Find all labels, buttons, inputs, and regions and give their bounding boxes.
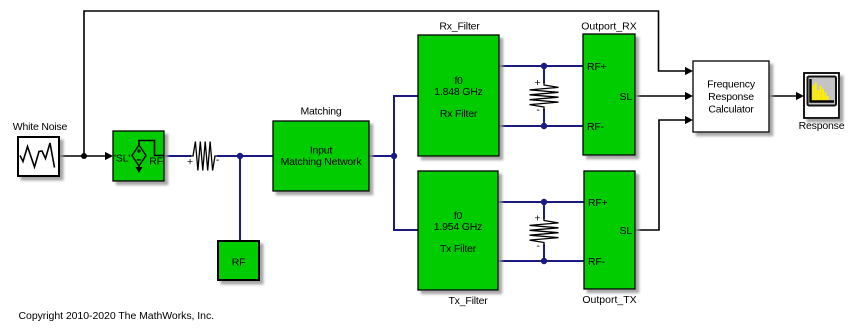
- svg-text:SL: SL: [620, 225, 633, 237]
- wire: calculator output to Response scope: [769, 95, 797, 97]
- junction: Tx RF+ node: [541, 199, 547, 205]
- svg-text:Tx Filter: Tx Filter: [440, 243, 477, 255]
- wire: Tx RF+ node to resistor R3: [543, 202, 545, 219]
- wire: Tx Filter RF+ to Outport_TX RF+: [498, 201, 584, 203]
- wire: node down to RF connection port: [239, 156, 241, 241]
- svg-text:RF+: RF+: [588, 197, 608, 209]
- wire: SL Inport RF to resistor R1: [164, 155, 191, 157]
- scope spectrum bars: [812, 83, 829, 102]
- junction: Rx RF- node: [541, 123, 547, 129]
- wire: Outport_RX SL to calculator input 2: [635, 95, 686, 97]
- block: SL Inport (controlled source) U1: [113, 131, 164, 181]
- svg-text:Matching: Matching: [300, 106, 341, 118]
- arrowhead into calculator input 1: [685, 67, 693, 75]
- svg-text:+: +: [535, 77, 541, 89]
- junction: White Noise output node: [81, 153, 87, 159]
- resistor R3: [530, 218, 559, 246]
- resistor R1: [190, 142, 218, 171]
- wire: White Noise output to SL Inport: [59, 155, 106, 157]
- wire: trunk node to Rx Filter input: [394, 96, 418, 156]
- junction: trunk node: [391, 153, 397, 159]
- resistor R2: [530, 82, 559, 110]
- wire: Outport_TX SL to calculator input 3: [635, 120, 686, 230]
- wire: resistor R3 to Tx RF- node: [543, 245, 545, 262]
- block: Rx_Filter: [418, 35, 499, 156]
- wire: resistor R2 to Rx RF- node: [543, 109, 545, 126]
- diamond minus sign: [137, 159, 142, 161]
- svg-text:1.848 GHz: 1.848 GHz: [434, 86, 482, 98]
- svg-text:Input: Input: [310, 145, 333, 157]
- junction: Tx RF- node: [541, 258, 547, 264]
- wire: Rx Filter RF- to Outport_RX RF-: [499, 125, 583, 127]
- wire: Rx RF+ node to resistor R2: [543, 66, 545, 83]
- scope screen bezel: [808, 77, 837, 106]
- block: Input Matching Network: [273, 121, 369, 191]
- svg-text:Copyright 2010-2020 The MathWo: Copyright 2010-2020 The MathWorks, Inc.: [19, 310, 215, 322]
- svg-text:Rx_Filter: Rx_Filter: [439, 21, 480, 33]
- svg-text:SL: SL: [620, 91, 633, 103]
- svg-text:Rx Filter: Rx Filter: [440, 108, 478, 120]
- svg-text:RF-: RF-: [588, 256, 606, 268]
- arrowhead into calculator input 2: [685, 92, 693, 100]
- arrowhead into Response scope: [796, 92, 804, 100]
- arrowhead into SL Inport: [105, 152, 113, 160]
- SL Inport internal wire: [139, 141, 164, 156]
- wire: Matching output to trunk node: [369, 155, 394, 157]
- wire: Rx Filter RF+ to Outport_RX RF+: [499, 65, 583, 67]
- svg-text:Response: Response: [799, 120, 845, 132]
- wire: feedback from White Noise node to Frequency Response Calculator input 1: [84, 11, 686, 156]
- svg-text:Matching Network: Matching Network: [281, 156, 363, 168]
- svg-text:RF: RF: [149, 156, 163, 168]
- diamond plus sign: [137, 149, 141, 153]
- svg-text:+: +: [535, 213, 541, 225]
- svg-text:Tx_Filter: Tx_Filter: [448, 295, 488, 307]
- block: Outport_RX: [583, 34, 635, 155]
- svg-text:1.954 GHz: 1.954 GHz: [434, 221, 482, 233]
- wire: R1 to Input Matching Network: [217, 155, 273, 157]
- scope axes: [811, 79, 835, 102]
- svg-text:RF-: RF-: [587, 121, 605, 133]
- SL Inport down arrow: [138, 166, 140, 169]
- wire: trunk node to Tx Filter input: [394, 156, 418, 230]
- svg-text:'SL': 'SL': [114, 153, 130, 165]
- svg-text:Frequency: Frequency: [707, 79, 756, 91]
- block: Response scope: [804, 73, 839, 118]
- arrowhead into calculator input 3: [685, 116, 693, 124]
- svg-text:Calculator: Calculator: [708, 104, 754, 116]
- SL Inport diamond source symbol: [132, 145, 146, 166]
- junction: node to RF connection port: [237, 153, 243, 159]
- svg-text:RF+: RF+: [587, 61, 607, 73]
- svg-text:Outport_RX: Outport_RX: [581, 21, 636, 33]
- svg-text:White Noise: White Noise: [13, 121, 68, 133]
- block: Frequency Response Calculator: [693, 61, 769, 132]
- block: White Noise source: [18, 137, 59, 176]
- svg-text:Response: Response: [708, 91, 754, 103]
- junction: Rx RF+ node: [541, 63, 547, 69]
- block: Outport_TX: [584, 171, 635, 289]
- block: Tx_Filter: [418, 171, 498, 290]
- block: RF connection port: [218, 241, 259, 280]
- svg-text:Outport_TX: Outport_TX: [582, 294, 636, 306]
- wire: Tx Filter RF- to Outport_TX RF-: [498, 260, 584, 262]
- svg-text:RF: RF: [232, 257, 246, 269]
- svg-text:+: +: [187, 156, 193, 168]
